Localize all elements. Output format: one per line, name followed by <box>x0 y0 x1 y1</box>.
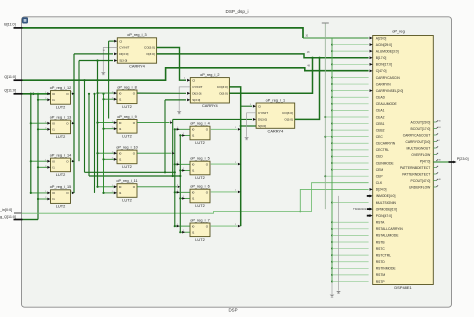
svg-text:LUT2: LUT2 <box>122 164 132 169</box>
wire Q upper -> DSP C <box>23 68 369 80</box>
svg-text:Q[11:0]: Q[11:0] <box>4 75 16 79</box>
svg-text:2: 2 <box>112 127 113 129</box>
svg-text:RSTINMODE: RSTINMODE <box>376 267 397 271</box>
svg-text:1: 1 <box>45 159 46 161</box>
lut2 oP_reg_i_14 <box>51 158 71 172</box>
svg-text:BCOUT[17:0]: BCOUT[17:0] <box>411 127 431 131</box>
svg-text:CEM: CEM <box>376 168 384 172</box>
wire Q lower into LUT column A <box>23 93 51 95</box>
svg-text:1: 1 <box>71 121 72 123</box>
svg-text:I0: I0 <box>119 91 122 95</box>
svg-text:O[3:0]: O[3:0] <box>284 117 293 121</box>
vertical distributor for column B <box>97 61 99 187</box>
svg-text:oP_reg_i_5: oP_reg_i_5 <box>190 157 209 161</box>
svg-text:CED: CED <box>376 155 384 159</box>
hierarchy icon <box>22 17 28 23</box>
svg-text:O[3:0]: O[3:0] <box>219 91 228 95</box>
svg-text:LUT2: LUT2 <box>56 104 66 109</box>
svg-text:1: 1 <box>177 127 178 129</box>
svg-text:I1: I1 <box>192 134 195 138</box>
svg-text:O[3:0]: O[3:0] <box>146 52 155 56</box>
svg-text:I1: I1 <box>119 158 122 162</box>
i_2 CO -> bus riser -> i_1 CI/DI/S <box>229 87 240 226</box>
svg-text:I0: I0 <box>119 185 122 189</box>
svg-text:ACOUT[29:0]: ACOUT[29:0] <box>411 120 431 124</box>
svg-text:P[23:0]: P[23:0] <box>457 157 469 161</box>
svg-text:RSTB: RSTB <box>376 240 386 244</box>
svg-text:CARRYINSEL[2:0]: CARRYINSEL[2:0] <box>376 89 404 93</box>
lut2 oP_reg_i_15 <box>51 190 71 204</box>
LUT A output collectors and mid risers <box>73 54 75 193</box>
D[24:0] riser <box>300 189 368 211</box>
svg-text:BCIN[17:0]: BCIN[17:0] <box>376 63 392 67</box>
svg-text:CO[3:0]: CO[3:0] <box>282 111 293 115</box>
svg-text:CECTRL: CECTRL <box>376 148 389 152</box>
svg-text:2: 2 <box>45 166 46 168</box>
svg-text:B[11:0]: B[11:0] <box>4 22 15 26</box>
svg-text:2: 2 <box>235 190 236 192</box>
svg-text:RSTP: RSTP <box>376 280 386 284</box>
svg-text:2: 2 <box>235 162 236 164</box>
svg-text:MULTSIGNOUT: MULTSIGNOUT <box>407 146 431 150</box>
svg-text:oP_reg_i_1: oP_reg_i_1 <box>266 98 285 102</box>
carry4 oP_reg_i_3 <box>117 38 156 63</box>
svg-text:oP_reg: oP_reg <box>392 28 405 33</box>
svg-text:1: 1 <box>235 127 236 129</box>
svg-text:I0: I0 <box>52 191 55 195</box>
svg-text:DI[3:0]: DI[3:0] <box>192 91 201 95</box>
VCC rail with T cap <box>324 23 326 209</box>
i_1 CYINIT const + ground <box>247 113 257 137</box>
svg-text:oP_reg_i_8: oP_reg_i_8 <box>117 85 136 89</box>
svg-text:PCIN[47:0]: PCIN[47:0] <box>376 214 392 218</box>
svg-text:CECARRYIN: CECARRYIN <box>376 142 396 146</box>
svg-text:CARRY4: CARRY4 <box>268 129 285 134</box>
svg-text:OPMODE[6:0]: OPMODE[6:0] <box>376 207 397 211</box>
svg-text:2: 2 <box>112 97 113 99</box>
svg-text:LUT2: LUT2 <box>56 134 66 139</box>
svg-text:2: 2 <box>177 185 178 187</box>
svg-text:CO[3:0]: CO[3:0] <box>144 46 155 50</box>
svg-text:2: 2 <box>183 230 184 232</box>
lut2 oP_reg_i_4 <box>190 126 210 140</box>
svg-text:oP_reg_i_7: oP_reg_i_7 <box>190 218 209 222</box>
svg-text:LUT2: LUT2 <box>195 140 205 145</box>
svg-text:CEC: CEC <box>376 135 384 139</box>
svg-text:PATTERNBDETECT: PATTERNBDETECT <box>400 166 430 170</box>
svg-text:CARRY4: CARRY4 <box>202 103 219 108</box>
svg-text:P[47:0]: P[47:0] <box>420 159 431 163</box>
i_2 O -> riser join B <box>229 58 312 94</box>
svg-text:I1: I1 <box>192 197 195 201</box>
svg-text:CEB1: CEB1 <box>376 122 385 126</box>
GND rail with dots and stubs <box>331 38 333 282</box>
svg-text:C[47:0]: C[47:0] <box>376 69 387 73</box>
svg-text:1: 1 <box>45 191 46 193</box>
svg-text:INMODE[4:0]: INMODE[4:0] <box>376 194 396 198</box>
svg-text:oP_reg_i_10: oP_reg_i_10 <box>116 146 138 150</box>
wire P[47:0] to port <box>433 161 448 163</box>
svg-text:DI[3:0]: DI[3:0] <box>258 117 267 121</box>
svg-text:1: 1 <box>45 92 46 94</box>
carry4 oP_reg_i_2 <box>190 78 229 103</box>
svg-text:1: 1 <box>45 121 46 123</box>
DSP constant bars INMODE/OPMODE/PCIN <box>367 195 371 197</box>
svg-text:1: 1 <box>177 224 178 226</box>
svg-text:B[17:0]: B[17:0] <box>376 56 387 60</box>
svg-text:I1: I1 <box>119 127 122 131</box>
svg-text:CEA1: CEA1 <box>376 109 385 113</box>
svg-text:RSTA: RSTA <box>376 221 385 225</box>
svg-text:2: 2 <box>170 120 171 122</box>
svg-text:DSP: DSP <box>228 308 237 313</box>
svg-text:oP_reg_i_4: oP_reg_i_4 <box>190 122 209 126</box>
svg-text:1: 1 <box>71 191 72 193</box>
svg-text:2: 2 <box>183 133 184 135</box>
svg-text:PCOUT[47:0]: PCOUT[47:0] <box>411 179 431 183</box>
svg-text:oP_reg_i_2: oP_reg_i_2 <box>200 73 219 77</box>
svg-text:oP_reg_i_13: oP_reg_i_13 <box>50 116 72 120</box>
svg-text:LUT2: LUT2 <box>122 133 132 138</box>
LUT A input feed wires <box>31 93 47 95</box>
lut2 oP_reg_i_11 <box>117 184 137 198</box>
svg-text:2: 2 <box>183 168 184 170</box>
svg-text:2: 2 <box>112 158 113 160</box>
svg-text:2: 2 <box>172 151 173 153</box>
svg-text:I1: I1 <box>192 230 195 234</box>
svg-text:LUT2: LUT2 <box>122 198 132 203</box>
svg-text:2: 2 <box>45 98 46 100</box>
svg-text:oP_reg_i_14: oP_reg_i_14 <box>50 154 72 158</box>
svg-text:A[29:0]: A[29:0] <box>376 36 387 40</box>
svg-text:I0: I0 <box>52 92 55 96</box>
wire B[11:0] -> DSP A <box>23 28 304 38</box>
svg-text:LUT2: LUT2 <box>195 203 205 208</box>
svg-text:LUT2: LUT2 <box>122 104 132 109</box>
svg-text:oP_reg_i_11: oP_reg_i_11 <box>116 179 137 183</box>
svg-text:1: 1 <box>112 185 113 187</box>
svg-text:I0: I0 <box>192 128 195 132</box>
svg-text:CARRYCASCOUT: CARRYCASCOUT <box>403 133 431 137</box>
svg-text:CEP: CEP <box>376 174 384 178</box>
LUT C output taps into result bus <box>211 128 238 130</box>
svg-text:CLK: CLK <box>376 181 383 185</box>
svg-text:CI: CI <box>119 39 122 43</box>
lut2 oP_reg_i_8 <box>117 90 137 104</box>
svg-text:CARRYOUT[3:0]: CARRYOUT[3:0] <box>405 140 430 144</box>
vertical distributor V2 / reg_Q riser <box>37 94 39 220</box>
svg-text:7'b0110101: 7'b0110101 <box>353 207 367 211</box>
svg-text:2: 2 <box>235 224 236 226</box>
svg-text:I0: I0 <box>192 191 195 195</box>
svg-text:I1: I1 <box>192 169 195 173</box>
svg-text:RSTD: RSTD <box>376 260 386 264</box>
middle horizontal pair <box>85 171 175 173</box>
svg-text:1: 1 <box>177 162 178 164</box>
svg-text:LUT2: LUT2 <box>56 172 66 177</box>
svg-text:CI: CI <box>192 78 195 82</box>
svg-text:PATTERNDETECT: PATTERNDETECT <box>402 172 430 176</box>
i_1 O -> riser join B <box>295 58 320 120</box>
svg-text:I0: I0 <box>192 163 195 167</box>
svg-text:oP_reg_i_12: oP_reg_i_12 <box>50 86 72 90</box>
svg-text:RSTC: RSTC <box>376 247 386 251</box>
svg-text:CI: CI <box>258 104 261 108</box>
svg-text:1: 1 <box>177 190 178 192</box>
svg-text:S[3:0]: S[3:0] <box>119 59 127 63</box>
DSP48E1 oP_reg <box>373 36 434 285</box>
svg-text:I1: I1 <box>52 98 55 102</box>
svg-text:DI[3:0]: DI[3:0] <box>119 52 128 56</box>
svg-text:RSTALUMODE: RSTALUMODE <box>376 234 399 238</box>
lut2 oP_reg_i_9 <box>117 120 137 134</box>
svg-text:I0: I0 <box>52 159 55 163</box>
clock net long horizontal <box>22 183 369 214</box>
second gray rail to ground <box>338 196 340 291</box>
svg-text:Q[11:0]: Q[11:0] <box>4 88 16 92</box>
svg-text:RSTM: RSTM <box>376 273 386 277</box>
svg-text:D[24:0]: D[24:0] <box>376 188 387 192</box>
svg-text:2: 2 <box>45 128 46 130</box>
svg-text:CEINMODE: CEINMODE <box>376 161 395 165</box>
i_3 CO -> i_2 CI <box>157 48 186 81</box>
svg-text:I0: I0 <box>119 151 122 155</box>
svg-text:2: 2 <box>112 191 113 193</box>
LUT B output collectors <box>137 92 186 94</box>
svg-text:CARRY4: CARRY4 <box>129 63 146 68</box>
svg-text:I1: I1 <box>119 191 122 195</box>
lut2 oP_reg_i_7 <box>190 223 210 237</box>
lut2 oP_reg_i_12 <box>51 91 71 105</box>
svg-text:DSP_dsp_i: DSP_dsp_i <box>226 9 249 14</box>
svg-text:2: 2 <box>183 196 184 198</box>
lut2 oP_reg_i_13 <box>51 120 71 134</box>
carry feed riser into i_3 CI <box>108 41 110 118</box>
i_3 CYINIT const wire + ground <box>103 48 117 72</box>
svg-text:RSTCTRL: RSTCTRL <box>376 253 391 257</box>
svg-text:CYINIT: CYINIT <box>258 111 268 115</box>
vertical distributor V1 <box>30 94 32 193</box>
svg-text:CO[3:0]: CO[3:0] <box>217 85 228 89</box>
lut2 oP_reg_i_6 <box>190 189 210 203</box>
svg-text:eg_Q[11:0]: eg_Q[11:0] <box>0 215 16 219</box>
svg-text:oP_reg_i_9: oP_reg_i_9 <box>117 115 136 119</box>
vertical distributors for column C <box>174 129 176 226</box>
svg-text:I0: I0 <box>52 121 55 125</box>
svg-text:I0: I0 <box>192 224 195 228</box>
svg-text:n_in[0:0]: n_in[0:0] <box>0 208 12 212</box>
svg-text:LUT2: LUT2 <box>195 175 205 180</box>
svg-text:CARRYIN: CARRYIN <box>376 82 391 86</box>
svg-text:2: 2 <box>45 197 46 199</box>
svg-text:CEALUMODE: CEALUMODE <box>376 102 398 106</box>
wire reg_Q port <box>23 219 39 221</box>
svg-text:OVERFLOW: OVERFLOW <box>411 153 431 157</box>
svg-text:CEB2: CEB2 <box>376 128 385 132</box>
svg-text:MULTSIGNIN: MULTSIGNIN <box>376 201 397 205</box>
lut2 oP_reg_i_5 <box>190 161 210 175</box>
svg-text:I1: I1 <box>52 197 55 201</box>
lut2 oP_reg_i_10 <box>117 150 137 164</box>
svg-text:UNDERFLOW: UNDERFLOW <box>409 185 431 189</box>
carry4 oP_reg_i_1 <box>256 103 295 128</box>
svg-text:ALUMODE[3:0]: ALUMODE[3:0] <box>376 49 399 53</box>
DSP bus pin arrowheads <box>370 37 373 40</box>
svg-text:oP_reg_i_6: oP_reg_i_6 <box>190 185 209 189</box>
svg-text:S[3:0]: S[3:0] <box>258 124 266 128</box>
svg-text:I1: I1 <box>119 97 122 101</box>
svg-text:CYINIT: CYINIT <box>192 85 202 89</box>
svg-text:CYINIT: CYINIT <box>119 46 129 50</box>
svg-text:oP_reg_i_3: oP_reg_i_3 <box>127 33 146 37</box>
svg-text:RSTALLCARRYIN: RSTALLCARRYIN <box>376 227 404 231</box>
svg-text:oP_reg_i_15: oP_reg_i_15 <box>50 185 72 189</box>
svg-text:I0: I0 <box>119 121 122 125</box>
svg-text:ACIN[29:0]: ACIN[29:0] <box>376 43 392 47</box>
svg-text:LUT2: LUT2 <box>56 204 66 209</box>
svg-text:CEAD: CEAD <box>376 96 386 100</box>
DI feed for i_1 from mid distributor <box>173 118 252 120</box>
svg-text:I1: I1 <box>52 128 55 132</box>
i_3 O -> DSP B (jog 18) <box>157 54 369 58</box>
svg-text:1: 1 <box>112 121 113 123</box>
svg-text:S[3:0]: S[3:0] <box>192 98 200 102</box>
svg-text:CEA2: CEA2 <box>376 115 385 119</box>
svg-text:1: 1 <box>71 159 72 161</box>
svg-text:LUT2: LUT2 <box>195 237 205 242</box>
i_2 CYINIT const + ground <box>179 87 190 111</box>
svg-text:1: 1 <box>112 151 113 153</box>
svg-text:1: 1 <box>71 92 72 94</box>
svg-text:CARRYCASCIN: CARRYCASCIN <box>376 76 401 80</box>
svg-text:DSP48E1: DSP48E1 <box>394 285 411 290</box>
svg-text:1: 1 <box>112 91 113 93</box>
svg-text:I1: I1 <box>52 166 55 170</box>
